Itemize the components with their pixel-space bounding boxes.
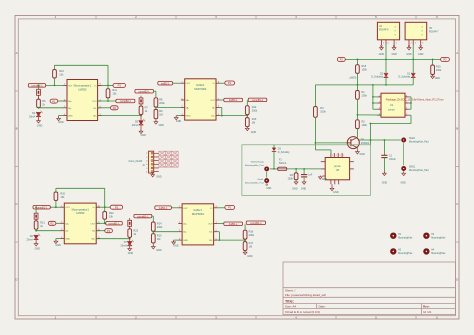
svg-text:Mcomparator1: Mcomparator1 [72,207,90,211]
svg-text:GND: GND [379,53,385,56]
U6 top pin stubs [330,153,332,158]
svg-text:compB2-1: compB2-1 [31,85,43,88]
svg-text:2: 2 [411,43,412,45]
node junction out [370,139,372,141]
node junction D2 [219,239,221,241]
svg-text:GND: GND [68,116,73,118]
capacitor C1 100uF [383,140,385,155]
svg-text:P3: P3 [118,84,122,88]
LED D4 [36,112,41,116]
ground below Hole2 [266,184,268,186]
wire U1 left bus [372,85,374,109]
node junction P3 [412,59,414,61]
wire U1 right bus [410,97,412,109]
diode D2 schottky [384,73,389,77]
svg-text:GND: GND [391,53,397,56]
wire OUT to bufB1-L [217,223,224,225]
svg-text:buffer1: buffer1 [196,83,205,87]
svg-text:1: 1 [332,155,333,157]
op-amp U2B LM393 comparator [64,203,96,244]
mounting pad Hole5 [402,138,405,141]
node junction C5 [104,222,106,224]
svg-text:compB2-1: compB2-1 [252,99,264,102]
resistor R22 13k [103,212,107,220]
svg-text:1uF: 1uF [308,174,313,176]
svg-text:D_Schottky: D_Schottky [278,151,291,154]
wire label to R12 [246,100,248,106]
svg-text:GND: GND [186,116,191,118]
wire R20 top rail [55,188,57,192]
svg-text:7: 7 [406,101,407,103]
node junction R4 top [295,168,297,170]
svg-text:GND: GND [301,187,307,190]
svg-text:GND: GND [359,153,365,156]
wire P2 to 1A+ C [56,222,61,224]
feedback loop wire D [217,231,219,233]
svg-text:Hole5: Hole5 [409,138,416,140]
svg-text:P1: P1 [52,99,56,103]
node junction U1b [372,102,374,104]
ground at U2B GND pin [56,238,61,240]
svg-text:Id: 1/1: Id: 1/1 [423,310,432,314]
svg-text:bufB2-L: bufB2-L [229,99,238,102]
node junction P1 [357,59,359,61]
ground below R17 [244,251,246,253]
wire R22 leads [104,207,106,211]
svg-text:A: A [16,51,18,55]
svg-text:MountingHole: MountingHole [431,252,446,255]
ground below R4 [295,180,297,182]
svg-text:GND: GND [159,124,165,127]
hierarchical label compB1-1 mid [246,221,265,225]
power flag P1 rail [337,57,345,61]
svg-text:200k: 200k [159,102,165,105]
wire comparator A output row [46,84,64,86]
svg-text:2: 2 [422,43,423,45]
node junction A4 [38,107,40,109]
ground below D4 [38,117,40,121]
ground below D5 [140,125,142,131]
svg-text:GND: GND [58,121,64,124]
ground below C1 [383,158,385,174]
wire into U6 top pins [315,149,331,151]
svg-text:8: 8 [406,95,407,97]
svg-text:20mA: 20mA [27,239,34,242]
U6 bottom pin stubs [330,180,332,185]
svg-text:200k: 200k [249,234,255,237]
svg-text:2: 2 [396,43,397,45]
wire 1B+ long to block D chain [96,238,130,240]
op-amp U2A LM393 comparator [67,80,98,121]
svg-text:3: 3 [379,108,380,110]
capacitor C2 1uF [303,169,305,175]
svg-text:MountingHole_Pad: MountingHole_Pad [409,141,429,144]
svg-text:pMOS: pMOS [350,77,357,80]
ground at U6 left pin [319,177,323,179]
svg-text:GND: GND [65,239,70,241]
svg-text:KiCad E.D.A. kicad (6.0.0): KiCad E.D.A. kicad (6.0.0) [285,310,320,314]
fuse F1 [278,167,287,170]
svg-text:GND: GND [435,77,441,80]
wire OUT to bufB2-L [220,99,224,101]
resistor R12 200k [245,106,249,115]
svg-text:buffer1: buffer1 [194,208,203,212]
node junction D3 rail [273,168,275,170]
svg-text:LM393: LM393 [78,88,87,92]
node junction base [315,142,317,144]
power flag P2 block C [48,221,56,225]
wire label to R16 [244,224,246,230]
wire V+ to P1 D [217,207,225,209]
node junction B2 [221,115,223,117]
mounting hole H4 [424,249,428,253]
diode D1 schottky [411,73,416,77]
resistor R6 1k [37,99,41,108]
ground at Q1 emitter [356,148,358,152]
svg-text:GND: GND [333,191,339,194]
hierarchical label compB1-L input [134,214,152,218]
wire 1B+ row to divider [220,115,248,117]
wire 1A- row [39,107,64,109]
svg-text:P1: P1 [228,206,232,210]
power flag P1 block C [105,229,113,233]
node junction gate3 [372,84,374,86]
svg-text:1: 1 [146,153,147,155]
svg-text:200k: 200k [252,110,258,113]
svg-text:MountingHole: MountingHole [431,236,446,239]
svg-text:compB1-L: compB1-L [137,215,149,218]
U6 left pin stubs [321,161,326,163]
svg-text:P2: P2 [113,106,117,110]
svg-text:bufB2-1: bufB2-1 [161,82,170,85]
svg-text:P2: P2 [443,58,447,62]
wire divider mid to 1A- D [153,231,178,233]
wire OUT row right [98,100,116,102]
svg-text:P2: P2 [51,221,55,225]
svg-text:100k: 100k [362,69,368,72]
power flag P2 rail [441,57,450,61]
node junction A5 [107,100,109,102]
svg-text:OUT: OUT [91,223,96,225]
svg-text:GND: GND [141,134,147,137]
wire bufB2-1 to U3 pin [173,82,181,84]
svg-text:GND: GND [418,53,424,56]
wire R8-R9 [155,107,157,109]
wire comparator C output row [50,206,60,208]
svg-text:1A-: 1A- [65,230,69,233]
op-amp U3B buffer MCP6064 [182,204,214,245]
svg-text:GND: GND [37,125,43,128]
hierarchical label bufB2-L [224,98,243,102]
svg-text:B: B [456,127,458,131]
node junction gate2 [385,84,387,86]
svg-text:GND: GND [56,244,62,247]
wire D2 to gate rail [385,78,387,85]
svg-text:pmos: pmos [388,108,395,111]
wire R1 to base node [356,99,358,115]
hierarchical label compB2-1 mid [248,98,267,102]
node junction B3 [246,115,248,117]
graphic box power subcircuit [242,145,371,196]
svg-text:Mcomparator1: Mcomparator1 [74,84,92,88]
resistor R15 1M [151,234,155,243]
resistor R1 100k [356,91,360,100]
svg-text:1B-: 1B- [209,232,213,234]
svg-text:GND: GND [322,179,327,181]
svg-text:Size: A4: Size: A4 [285,305,296,309]
svg-text:GND: GND [173,245,179,248]
svg-text:GND: GND [128,252,134,255]
wire main V+ rail [345,58,440,60]
svg-text:Package_DI:SOIC_8_3.9x4.9mm_No: Package_DI:SOIC_8_3.9x4.9mm_Nom_P1.27mm [386,98,444,102]
frame zone ticks and numbers [95,16,97,19]
svg-text:U1: U1 [390,103,394,107]
resistor R9 1M [154,109,158,118]
svg-text:Conn_01x06: Conn_01x06 [129,160,143,163]
resistor R7 1k [140,104,142,107]
ground below J1 [152,173,154,174]
LED D6 [34,235,39,239]
svg-text:100k: 100k [320,111,326,114]
node junction C1 [104,206,106,208]
mounting hole H1 [391,234,395,238]
svg-text:OUT: OUT [68,85,73,87]
resistor R14 200k [151,222,155,231]
wire label to R14 divider [152,215,154,217]
hierarchical label compB1-1 [33,205,50,209]
ground stub U4 pin1 [381,45,383,47]
svg-text:Sheet: /: Sheet: / [285,288,296,292]
svg-text:GND: GND [176,120,182,123]
jumper JP2 [140,96,142,98]
wire U4 drain down [385,45,387,73]
svg-text:GND: GND [156,176,162,179]
wire JP1 to R6 [38,95,40,99]
wire 1B+ row to divider D [217,239,245,241]
svg-text:pmos: pmos [334,165,341,168]
resistor R2 100k [356,120,360,129]
svg-text:2: 2 [388,43,389,45]
ground below R19 [432,75,434,77]
svg-text:GND: GND [156,249,162,252]
resistor R8 200k [154,98,158,107]
svg-text:1B-: 1B- [92,231,96,233]
svg-text:D_Schottky: D_Schottky [398,76,411,79]
svg-text:compB1-L: compB1-L [108,223,120,226]
ground below GND1 pad [403,171,405,173]
ground below U6 [331,184,333,188]
resistor R21 1k [35,219,37,221]
svg-text:P3: P3 [115,205,119,209]
gate rail wire [315,84,413,86]
svg-text:Rev:: Rev: [423,305,430,309]
svg-text:3: 3 [146,161,147,163]
svg-text:100k: 100k [362,124,368,127]
ground stub U5 pin1 [408,45,410,47]
svg-text:5: 5 [406,114,407,116]
svg-text:bufB1-L: bufB1-L [229,223,238,226]
svg-text:GND: GND [251,131,257,134]
power flag P3 block C [110,205,123,209]
power flag P1 block A [50,99,58,103]
ground below D6 [35,240,37,244]
transistor U4 p-MOSFET [377,22,399,40]
wire R2 leads [356,115,358,120]
svg-text:GND: GND [400,182,406,185]
svg-text:D_Schottky: D_Schottky [371,76,384,79]
node junction loop [370,123,372,125]
node junction C2 top [303,168,305,170]
wire label to R8 divider [154,90,156,92]
svg-text:200k: 200k [157,226,163,229]
wire fuse to U6 [287,168,321,170]
jumper JP4 [129,218,131,220]
resistor R3 100k [314,107,318,118]
svg-text:100k: 100k [436,69,442,72]
jumper JP1 [37,89,41,95]
U4 pin stubs [380,40,382,45]
svg-text:4: 4 [146,164,147,166]
svg-text:OUT: OUT [208,224,213,226]
ground below C2 [303,177,305,182]
ground below R13 [246,127,248,129]
svg-text:LM393: LM393 [76,211,85,215]
svg-text:MountingHole_Pad: MountingHole_Pad [245,182,264,185]
svg-text:GND: GND [247,255,253,258]
node junction P2 [385,59,387,61]
diode D3 schottky [273,145,275,148]
ground stub U4 pin3 [393,45,395,47]
hierarchical label bufB2-1 [158,81,173,85]
node junction C3 [35,206,37,208]
node junction U1c [410,102,412,104]
svg-text:OUT: OUT [65,207,70,209]
node junction A3 [38,85,40,87]
svg-text:Title:: Title: [285,299,294,303]
U5 pin stubs [408,40,410,45]
LED D7 [129,237,131,241]
hierarchical label compB2-L [116,99,135,103]
node junction D1 [129,238,131,240]
svg-text:100uF: 100uF [389,158,396,161]
svg-text:OUT: OUT [186,83,191,85]
svg-text:MountingHole: MountingHole [398,252,413,255]
op-amp U3A buffer MCP6064 [185,79,216,120]
svg-text:P1: P1 [228,81,232,85]
svg-text:A: A [456,51,458,55]
wire V+ to P1 [220,82,225,84]
hierarchical label compB1-L [106,222,123,226]
svg-text:bufB1-1: bufB1-1 [159,207,168,210]
svg-text:File: powerswitching.kicad_sch: File: powerswitching.kicad_sch [285,293,327,297]
ground at U2A pin 4 [59,115,64,117]
resistor R11 13k [106,89,110,98]
svg-text:GND: GND [183,240,188,242]
U6 right pin stubs [350,161,354,163]
hierarchical label compB2-L input [135,89,154,93]
ground below D7 [129,246,131,248]
wire divider mid to 1A- [156,106,181,108]
svg-text:6: 6 [146,172,147,174]
svg-text:1A-: 1A- [183,231,187,234]
svg-text:GND: GND [35,248,41,251]
jumper JP3 [35,207,37,213]
U1 right pin stubs [405,96,409,98]
svg-text:1M: 1M [252,122,255,125]
svg-text:2N3904: 2N3904 [361,142,370,145]
wire D1 to gate rail [412,78,414,85]
svg-text:1: 1 [379,95,380,97]
ground below R15 [152,243,154,247]
mounting pad GND1 [402,167,405,170]
svg-text:100k: 100k [287,177,293,180]
wire output column [369,124,371,145]
wire 1B- row right [98,107,111,109]
power flag P3 [113,83,126,87]
svg-text:P1: P1 [340,58,344,62]
node junction C4 [35,230,37,232]
svg-text:GND: GND [292,187,298,190]
wire U1 pin4 row [357,114,381,116]
ground at U3A pin 4 [176,115,181,117]
feedback loop wire 1B- to 1B+ [220,106,222,108]
svg-text:100k: 100k [362,95,368,98]
mounting pad Hole2 [265,179,268,182]
U1 left pin stubs [377,96,381,98]
svg-text:20mA: 20mA [132,124,139,127]
svg-text:1M: 1M [159,114,162,117]
wire between pads [266,172,268,178]
node junction U1a [372,96,374,98]
wire bufB1-1 to U3B [171,207,178,209]
node junction gate1 [357,84,359,86]
resistor R18 100k [356,59,358,64]
svg-text:MountingHole_Pad: MountingHole_Pad [409,169,429,172]
power flag P1 block D [225,205,235,209]
wire pad column [403,143,405,165]
svg-text:Hole1(Vlang): Hole1(Vlang) [251,162,264,164]
wire pad to fuse [270,168,278,170]
svg-text:500mA: 500mA [279,162,287,165]
node junction P4 [432,59,434,61]
svg-text:2: 2 [383,43,384,45]
hierarchical label bufB1-1 [155,206,172,210]
wire R18 to gate rail [356,73,358,90]
wire OUT row right C [96,222,106,224]
ground below R9 [155,119,157,122]
title block [283,262,456,315]
wire R11 leads [107,85,109,88]
svg-text:OUT: OUT [92,101,97,103]
ground at U3B GND pin [174,239,179,241]
svg-text:2: 2 [379,101,380,103]
svg-text:20mA: 20mA [29,116,36,119]
node junction A2 [54,85,56,87]
wire to mounting pad Hole5 [358,139,401,141]
svg-text:Geot1: Geot1 [258,178,265,181]
wire U5 drain down [412,45,414,73]
resistor R17 1M [244,239,246,242]
mounting hole H2 [391,249,395,253]
svg-text:6: 6 [406,108,407,110]
transistor U5 p-MOSFET [405,22,427,40]
node junction B1 [140,115,142,117]
svg-text:MCP6064: MCP6064 [192,212,204,216]
node junction C2 [55,206,57,208]
transistor Q1 2N3904 [347,137,359,149]
wire 1A- row C [36,230,61,232]
svg-text:U6: U6 [336,168,340,172]
